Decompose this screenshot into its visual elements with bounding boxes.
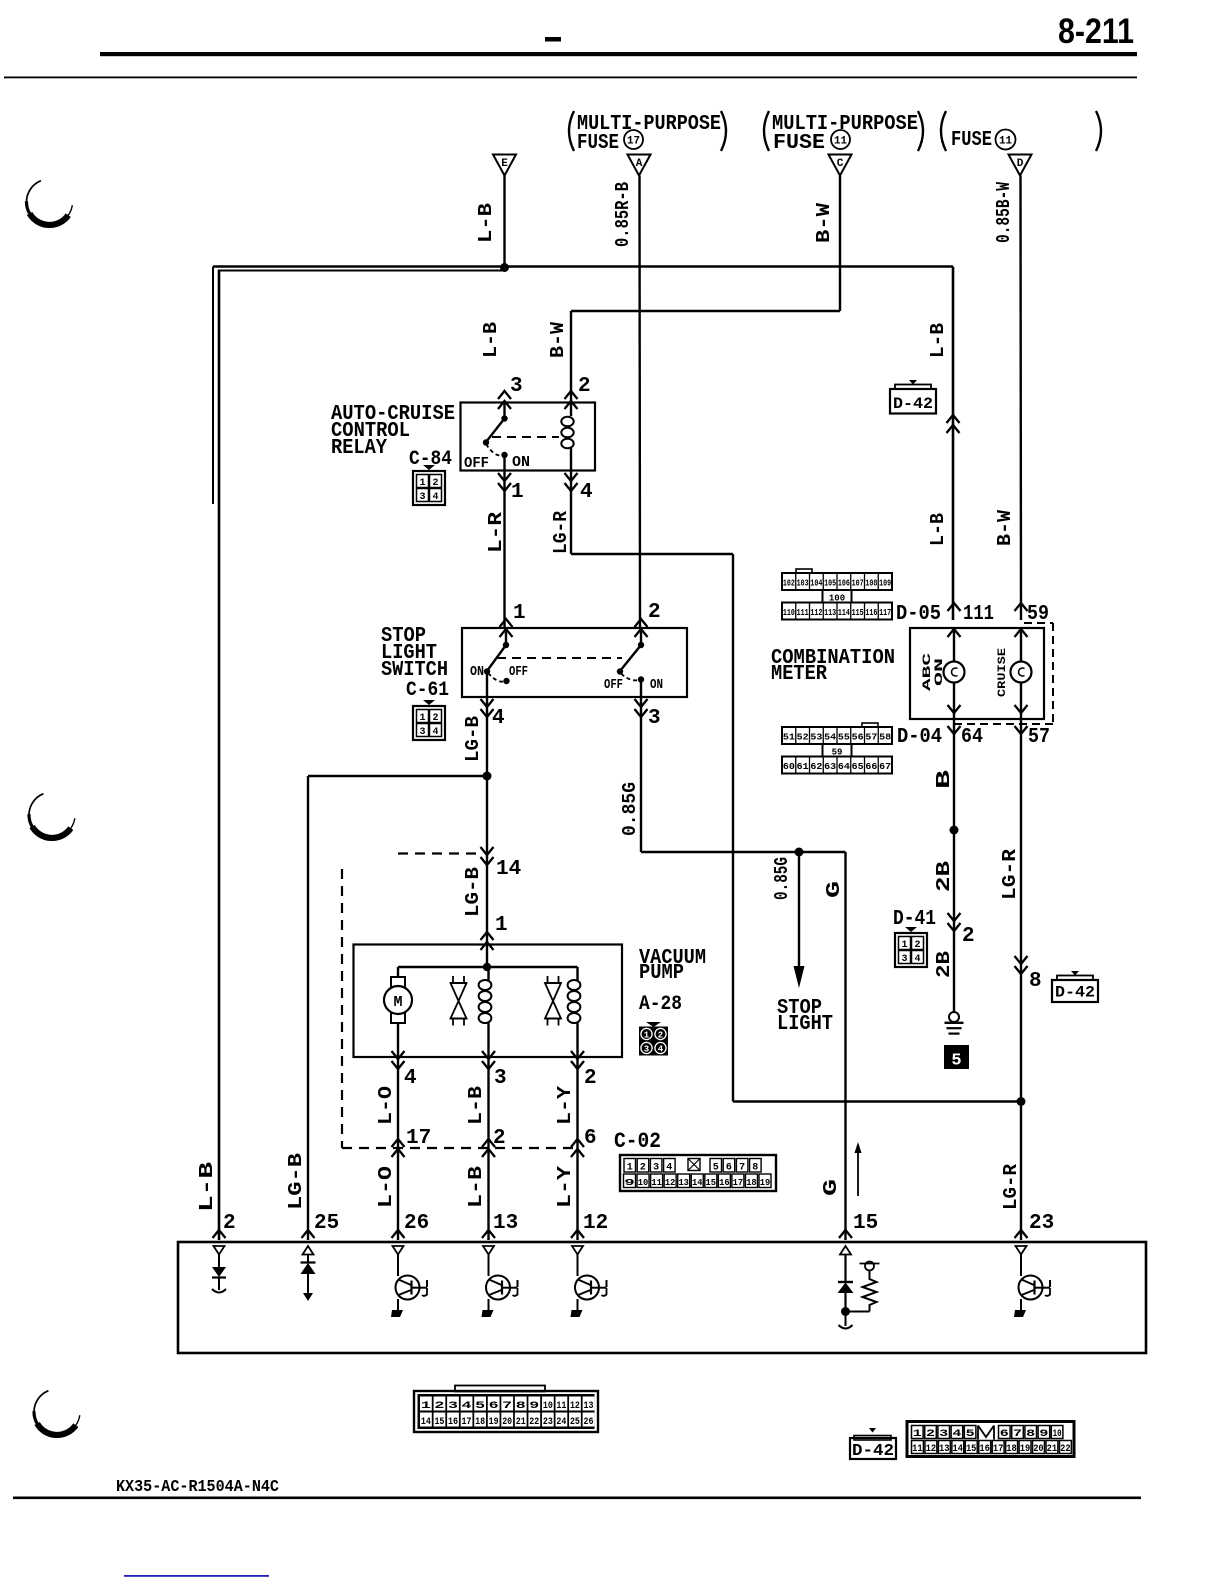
svg-text:111: 111 [797,608,809,618]
coil 2 [576,967,578,980]
wire LG-R right [1020,719,1022,1102]
svg-text:58: 58 [879,733,891,743]
meter pin 57 arrows [1015,705,1028,713]
SLS mechanical link [497,657,622,659]
svg-text:C-02: C-02 [614,1129,661,1154]
D-41 pin 2 arrows [948,913,961,921]
svg-text:0.85G: 0.85G [619,782,641,836]
svg-text:19: 19 [1020,1444,1031,1455]
svg-text:14: 14 [421,1417,431,1428]
svg-text:112: 112 [810,608,822,618]
connector C-61 icon [423,700,435,705]
svg-text:55: 55 [838,733,850,743]
svg-text:4: 4 [666,1163,672,1174]
relay pin 3 arrows [498,391,511,399]
svg-text:PUMP: PUMP [639,962,684,985]
svg-text:METER: METER [771,663,827,686]
connector strip D-05 [796,569,812,573]
bus wire L-B horizontal [213,265,953,268]
svg-text:16: 16 [719,1177,730,1188]
svg-text:22: 22 [1060,1444,1071,1455]
op: combination meter box [910,628,1044,719]
svg-text:23: 23 [1029,1212,1054,1235]
ground symbol [949,1012,959,1022]
svg-text:2: 2 [434,1401,444,1412]
binder hole 2 [32,827,71,838]
svg-text:54: 54 [824,733,837,743]
wire B [953,719,955,1012]
svg-text:1: 1 [421,1401,431,1412]
wire L-B from terminal E [503,176,505,268]
svg-text:13: 13 [678,1177,689,1188]
node LG-R junction [1017,1097,1026,1106]
svg-text:63: 63 [824,762,836,772]
ECU pin entry arrow [839,1230,852,1238]
svg-text:L-Y: L-Y [554,1085,576,1125]
wire L-B mid [487,1057,489,1240]
SLS right pole [640,628,642,645]
svg-text:2: 2 [926,1429,935,1440]
svg-text:0.85G: 0.85G [771,857,793,900]
footer rule [13,1497,1141,1500]
svg-text:5: 5 [713,1163,719,1174]
svg-text:D: D [1017,158,1024,170]
binder hole 3 [37,1424,76,1435]
svg-text:17: 17 [627,136,640,148]
svg-text:5: 5 [475,1401,485,1412]
svg-text:67: 67 [879,762,891,772]
svg-text:14: 14 [496,858,521,881]
svg-text:109: 109 [879,579,891,589]
svg-text:A: A [636,158,643,170]
meter pin 64 arrows [948,705,961,713]
svg-text:2: 2 [223,1212,236,1235]
connector C-02 icon [620,1155,776,1191]
header thin rule [4,77,1137,79]
svg-text:8: 8 [516,1401,526,1412]
svg-text:114: 114 [838,608,850,618]
op: auto-cruise control relay box C-84 [461,403,596,471]
svg-text:19: 19 [489,1417,499,1428]
pump pin 3 arrows [482,1051,495,1059]
svg-text:116: 116 [865,608,877,618]
svg-text:L-Y: L-Y [554,1165,576,1208]
left rail inner wire [212,267,214,505]
wire L-Y [576,1057,578,1240]
svg-text:L-B: L-B [480,322,502,358]
svg-text:2: 2 [914,940,920,951]
svg-text:FUSE: FUSE [773,132,825,155]
wire LG-R joining [733,1100,1021,1102]
terminal E [493,155,516,176]
relay switch ON contact [501,452,507,458]
svg-text:14: 14 [692,1177,703,1188]
node LG-B branch [483,772,492,781]
relay coil [570,403,572,417]
svg-text:OFF: OFF [604,677,623,693]
ECU pin 2 internal diode [214,1246,225,1255]
svg-text:51: 51 [783,733,796,743]
svg-text:L-B: L-B [927,513,949,546]
svg-text:3: 3 [648,707,661,730]
svg-text:4: 4 [580,481,593,504]
ECU pin 13 internal transistor [483,1246,494,1255]
svg-text:9: 9 [529,1401,539,1412]
svg-text:22: 22 [529,1417,539,1428]
svg-text:L-B: L-B [465,1086,487,1125]
svg-text:107: 107 [852,579,864,589]
svg-text:M: M [393,994,402,1011]
lamp CRUISE [1020,628,1022,662]
node stop light branch [795,848,804,857]
SLS left pole [505,628,507,645]
svg-text:19: 19 [760,1177,771,1188]
pin 14 arrows [481,847,494,855]
wire L-R [503,471,505,629]
svg-text:117: 117 [879,608,891,618]
svg-text:2: 2 [584,1067,597,1090]
svg-text:OFF: OFF [509,664,528,680]
svg-text:21: 21 [516,1417,526,1428]
svg-text:1: 1 [419,713,425,724]
svg-text:12: 12 [665,1177,676,1188]
terminal D [1009,155,1032,176]
svg-text:66: 66 [865,762,877,772]
meter dashed box [1024,622,1053,624]
svg-text:21: 21 [1047,1444,1058,1455]
svg-text:1: 1 [913,1429,922,1440]
wire LG-R from relay pin 4 [570,471,572,555]
label (MULTI-PURPOSE FUSE 11) [764,111,769,151]
svg-text:6: 6 [726,1163,732,1174]
svg-text:13: 13 [939,1444,950,1455]
svg-text:4: 4 [432,492,438,503]
relay pin 1 arrows [498,473,511,481]
lamp ABC ON [953,628,955,662]
pin 8 arrows [1015,956,1028,964]
svg-text:106: 106 [838,579,850,589]
SLS pin 4 arrows [481,699,494,707]
connector D-42 full icon [907,1422,1074,1457]
ECU pin entry arrow [392,1230,405,1238]
svg-text:64: 64 [961,726,983,749]
wire 0.85R-B from terminal A [638,176,641,629]
svg-text:L-B: L-B [465,1166,487,1208]
svg-text:2: 2 [658,1031,663,1041]
svg-text:16: 16 [979,1444,990,1455]
svg-text:61: 61 [797,762,810,772]
svg-text:25: 25 [314,1212,339,1235]
valve 1 [452,976,454,983]
SLS pin 1 arrows [500,619,513,627]
svg-text:D-04: D-04 [897,726,942,749]
svg-text:17: 17 [406,1127,431,1150]
svg-text:LG-R: LG-R [550,510,572,554]
svg-text:64: 64 [838,762,851,772]
op: stop light switch box C-61 [462,628,687,697]
wire LG-B below SLS [486,697,488,776]
svg-text:4: 4 [432,727,438,738]
connector D-42 (mid) [1057,976,1093,981]
svg-text:14: 14 [953,1444,964,1455]
ECU pin 15 internal circuit [840,1246,851,1255]
svg-text:11: 11 [912,1444,923,1455]
svg-text:57: 57 [1028,726,1050,749]
svg-text:L-B: L-B [196,1162,218,1212]
svg-text:10: 10 [543,1401,553,1412]
blue mark [124,1575,269,1577]
svg-text:20: 20 [502,1417,512,1428]
svg-text:8-211: 8-211 [1058,12,1134,51]
wire B-W branch [571,310,840,312]
svg-text:B: B [933,770,955,789]
svg-text:LG-B: LG-B [462,716,484,762]
svg-text:111: 111 [963,603,994,626]
vacuum pump pin 1 arrows [481,932,494,940]
svg-text:4: 4 [462,1401,472,1412]
svg-text:102: 102 [783,579,795,589]
svg-text:1: 1 [511,481,524,504]
svg-text:2: 2 [432,478,438,489]
svg-text:3: 3 [901,954,907,965]
svg-text:104: 104 [810,579,822,589]
valve 2 [547,976,549,983]
svg-text:4: 4 [492,707,505,730]
connector strip D-04 [862,723,878,727]
svg-text:LG-R: LG-R [1000,1163,1022,1210]
meter pin 59 arrows [1015,603,1028,611]
svg-text:15: 15 [966,1444,977,1455]
svg-text:D-42: D-42 [1055,984,1095,1002]
svg-text:2: 2 [578,375,591,398]
svg-text:23: 23 [543,1417,553,1428]
wire LG-B to vacuum pump [486,853,488,941]
svg-text:A-28: A-28 [639,993,682,1016]
svg-text:10: 10 [638,1177,649,1188]
svg-text:8: 8 [752,1163,758,1174]
terminal A [628,155,651,176]
svg-text:B-W: B-W [994,509,1016,546]
header thick rule [100,52,1137,56]
svg-text:L-O: L-O [375,1166,397,1208]
svg-text:G: G [820,1179,842,1196]
svg-text:D-05: D-05 [896,603,941,626]
svg-text:18: 18 [475,1417,485,1428]
svg-text:4: 4 [404,1067,417,1090]
svg-text:L-B: L-B [927,323,949,358]
svg-text:3: 3 [653,1163,659,1174]
label (FUSE 11) [941,111,946,151]
svg-text:52: 52 [797,733,809,743]
svg-text:D-42: D-42 [852,1442,894,1461]
svg-text:LG-R: LG-R [999,848,1021,900]
svg-text:11: 11 [999,136,1012,148]
svg-text:3: 3 [939,1429,948,1440]
svg-text:1: 1 [627,1163,633,1174]
svg-text:LG-B: LG-B [285,1153,307,1210]
svg-text:CRUISE: CRUISE [997,648,1009,697]
svg-text:ON: ON [470,664,484,680]
ECU pin entry arrow [302,1230,315,1238]
connector D-42 (top, on L-B rail) [895,385,931,390]
svg-text:25: 25 [570,1417,580,1428]
svg-text:0.85B-W: 0.85B-W [993,182,1015,243]
svg-text:56: 56 [852,733,864,743]
svg-text:4: 4 [952,1429,961,1440]
terminal C [829,155,852,176]
svg-text:7: 7 [1013,1429,1022,1440]
connector A-28 icon [646,1022,661,1027]
svg-text:3: 3 [419,727,425,738]
svg-text:110: 110 [783,608,795,618]
ECU pin 23 internal transistor [1016,1246,1027,1255]
svg-text:2: 2 [962,925,975,948]
label (MULTI-PURPOSE FUSE 17) [569,111,574,151]
svg-text:59: 59 [832,748,843,758]
svg-text:16: 16 [448,1417,458,1428]
svg-text:3: 3 [644,1045,649,1055]
svg-text:KX35-AC-R1504A-N4C: KX35-AC-R1504A-N4C [116,1478,279,1497]
meter pin 111 arrows [948,603,961,611]
svg-text:2: 2 [640,1163,646,1174]
svg-text:B-W: B-W [547,321,569,358]
svg-text:26: 26 [584,1417,594,1428]
svg-text:FUSE: FUSE [577,132,619,155]
svg-text:12: 12 [926,1444,937,1455]
svg-text:113: 113 [824,608,836,618]
svg-text:6: 6 [489,1401,499,1412]
svg-text:2B: 2B [933,861,955,892]
svg-text:62: 62 [810,762,822,772]
svg-text:6: 6 [584,1127,597,1150]
wire L-O [397,1057,399,1240]
svg-text:B-W: B-W [813,202,835,243]
op: ECU box [178,1242,1146,1353]
svg-text:8: 8 [1026,1429,1035,1440]
svg-text:17: 17 [462,1417,472,1428]
svg-text:4: 4 [658,1045,664,1055]
svg-text:57: 57 [865,733,877,743]
svg-text:100: 100 [829,594,845,604]
svg-text:12: 12 [570,1401,580,1412]
wire G down to ECU pin 15 [844,852,846,1240]
svg-text:G: G [823,881,845,898]
svg-text:1: 1 [901,940,907,951]
stop light feed arrow [798,852,800,972]
ground ref box 5 [944,1045,969,1069]
svg-text:60: 60 [783,762,795,772]
wire 0.85G from SLS pin 3 [640,697,642,852]
svg-text:E: E [501,158,508,170]
svg-text:LIGHT: LIGHT [777,1013,833,1036]
svg-text:3: 3 [419,492,425,503]
svg-text:12: 12 [583,1212,608,1235]
svg-text:13: 13 [493,1212,518,1235]
pump input wire [486,941,488,967]
svg-text:7: 7 [739,1163,745,1174]
ECU pin 25 internal diode [303,1246,314,1255]
svg-text:15: 15 [853,1212,878,1235]
L-B rail pass-through arrows [947,415,960,423]
SLS pin 3 arrows [635,699,648,707]
relay pin 2 arrows [565,391,578,399]
svg-text:10: 10 [1053,1429,1062,1440]
svg-text:ON: ON [512,454,530,471]
svg-text:15: 15 [434,1417,444,1428]
svg-text:24: 24 [556,1417,566,1428]
svg-text:3: 3 [448,1401,458,1412]
node pump rail [483,963,491,971]
wire 0.85B-W from terminal D [1019,176,1022,621]
svg-text:5: 5 [966,1429,975,1440]
harness dashed boundary [398,852,482,854]
SLS pin 2 arrows [635,619,648,627]
svg-text:65: 65 [852,762,864,772]
svg-text:ON: ON [934,658,946,686]
svg-text:17: 17 [733,1177,744,1188]
svg-text:20: 20 [1033,1444,1044,1455]
motor M [397,967,399,977]
svg-text:6: 6 [1000,1429,1009,1440]
svg-text:3: 3 [510,375,523,398]
ECU pin 12 internal transistor [572,1246,583,1255]
wire B-W from terminal C [839,176,841,312]
pump pin 4 arrows [392,1051,405,1059]
svg-text:D-42: D-42 [893,395,933,413]
svg-text:105: 105 [824,579,836,589]
svg-text:9: 9 [1039,1429,1048,1440]
svg-text:L-B: L-B [475,203,497,243]
svg-text:9: 9 [624,1177,635,1188]
coil 1 [487,967,489,980]
left rail wire L-B down to ECU pin 2 [218,270,221,1241]
svg-text:ABC: ABC [922,652,934,691]
svg-text:53: 53 [810,733,822,743]
ECU pin entry arrow [213,1230,226,1238]
svg-text:3: 3 [494,1067,507,1090]
wire LG-B to left branch [308,775,487,777]
svg-text:L-R: L-R [485,511,507,553]
svg-text:15: 15 [706,1177,717,1188]
svg-text:2B: 2B [933,951,955,978]
svg-text:18: 18 [746,1177,757,1188]
svg-text:C-61: C-61 [406,679,449,702]
svg-text:7: 7 [502,1401,512,1412]
svg-text:L-O: L-O [375,1086,397,1125]
page header dash [545,37,561,42]
svg-text:2: 2 [432,713,438,724]
svg-text:1: 1 [513,602,526,625]
ECU pin entry arrow [1015,1230,1028,1238]
right rail corner down (L-B) [952,267,955,621]
wire LG-B down to pin 14 [486,776,488,853]
svg-text:1: 1 [419,478,425,489]
svg-text:2: 2 [648,601,661,624]
svg-text:11: 11 [556,1401,566,1412]
svg-text:0.85R-B: 0.85R-B [612,182,634,247]
svg-text:4: 4 [914,954,920,965]
connector D-42 bottom label [854,1436,891,1441]
svg-text:26: 26 [404,1212,429,1235]
binder hole 1 [30,214,69,225]
svg-text:1: 1 [495,914,508,937]
bus wire L-B lower double [219,270,504,272]
connector C-84 icon [423,465,435,470]
pump pin 2 arrows [571,1051,584,1059]
connector C-02 full icon [414,1391,598,1432]
svg-text:11: 11 [651,1177,662,1188]
svg-text:ON: ON [650,677,663,693]
